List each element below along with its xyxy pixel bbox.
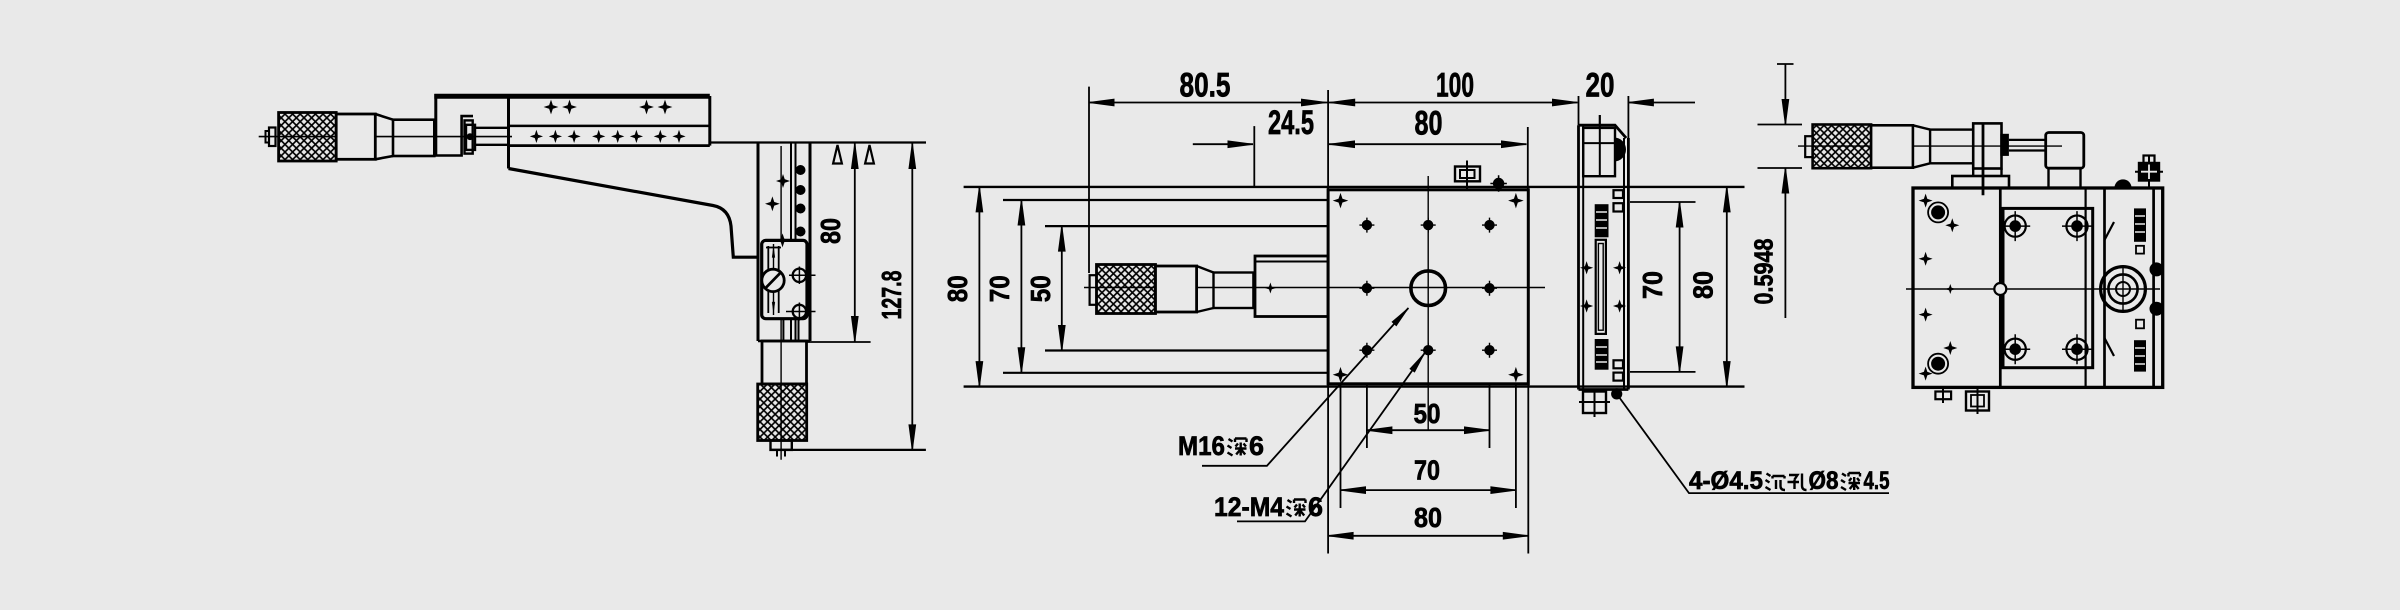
dim 80 line: [854, 144, 856, 342]
micrometer collar: [1871, 125, 1913, 167]
svg-text:70: 70: [1414, 455, 1440, 486]
taper: [1913, 125, 1930, 167]
micrometer Z stem: [762, 341, 807, 384]
big micrometer circle: [2101, 267, 2146, 312]
center axis: [1906, 288, 2160, 290]
M16 center ring: [1411, 271, 1446, 306]
spindle: [2009, 140, 2046, 151]
svg-text:50: 50: [1414, 398, 1441, 429]
svg-text:50: 50: [1025, 275, 1056, 302]
sleeve: [1930, 130, 1973, 164]
micrometer Y knurl: [1097, 265, 1156, 314]
bottom extension lines: [1327, 384, 1329, 554]
right striped screws: [2134, 208, 2146, 371]
vertical rail column: [757, 144, 760, 342]
side plate notch blocks: [1614, 190, 1624, 198]
micrometer Y taper: [1197, 266, 1214, 312]
spindle to plate: [475, 128, 508, 145]
micrometer X collar: [336, 114, 375, 159]
micrometer X taper: [375, 114, 393, 159]
left dim 80: [978, 187, 980, 387]
svg-text:24.5: 24.5: [1268, 104, 1314, 142]
extension line 24.5: [1253, 126, 1255, 188]
boss chamfers: [2105, 222, 2115, 356]
svg-text:4-Ø4.5: 4-Ø4.5: [1689, 467, 1763, 495]
base outer edge lines (80 wide): [964, 186, 1745, 188]
dim row 24.5 / 80: [1193, 143, 1253, 145]
M4 holes grid: [1359, 218, 1374, 233]
leader 12-M4: [1237, 353, 1425, 521]
inner screw plate: [2003, 208, 2093, 367]
mount bracket: [1973, 123, 2001, 168]
plate right edge extension up: [1527, 127, 1529, 190]
vertical micrometer centerline: [780, 146, 782, 460]
bottom screws: [1942, 387, 1944, 403]
svg-text:80: 80: [1414, 502, 1442, 533]
micrometer Z knurl: [758, 384, 807, 441]
top plate (side view): [507, 96, 510, 169]
micrometer X axis line: [259, 136, 512, 138]
below clamp: [782, 319, 784, 341]
bracket left edge: [434, 94, 437, 156]
side plate bottom screw: [1583, 392, 1606, 414]
side plate left edge: [1578, 96, 1580, 125]
reference top surface line: [710, 141, 926, 143]
corner counterbore diamonds: [1334, 194, 1346, 206]
side plate inner verticals: [1582, 125, 1584, 389]
right side black dots: [2150, 262, 2164, 276]
micrometer X end cap: [266, 131, 270, 143]
svg-text:4.5: 4.5: [1864, 467, 1890, 495]
side plate mid rail: [1596, 240, 1606, 334]
axis line: [1798, 145, 2062, 147]
ball row diamonds: [531, 131, 542, 142]
dim 0.5948: [1784, 64, 1786, 125]
right dim 80: [1726, 187, 1728, 387]
clamp block: [762, 240, 807, 318]
micrometer X sleeve: [393, 120, 434, 156]
left dim 50: [1061, 226, 1063, 350]
micrometer Y collar: [1156, 266, 1197, 312]
bracket bottom: [434, 116, 473, 155]
side plate top + chamfer: [1579, 125, 1627, 138]
svg-text:80.5: 80.5: [1180, 67, 1231, 105]
svg-text:0.5948: 0.5948: [1749, 239, 1779, 305]
leader M16: [1202, 308, 1408, 466]
bracket top thick bar: [434, 94, 710, 99]
spindle clamp: [465, 120, 473, 153]
svg-text:6: 6: [1308, 492, 1323, 522]
plate left edge extension up: [1327, 90, 1329, 190]
side plate diamonds: [1581, 263, 1592, 274]
plate vertical centerline: [1427, 176, 1429, 430]
4 screws: [2000, 211, 2092, 364]
svg-text:70: 70: [984, 275, 1015, 302]
inner verticals: [1999, 188, 2002, 387]
right dim 70: [1679, 202, 1681, 372]
svg-text:80: 80: [1688, 271, 1719, 299]
micrometer end cap: [1805, 136, 1812, 157]
svg-text:127.8: 127.8: [876, 271, 907, 320]
leader 4-d4.5: [1617, 394, 1889, 493]
main square plate: [1328, 190, 1528, 384]
top dim row 80.5 / 100 / 20: [1089, 102, 1578, 104]
micrometer Y: end cap: [1090, 275, 1097, 305]
extension line 80.5 left: [1088, 87, 1090, 273]
top edge dot screw: [1490, 175, 1507, 192]
svg-text:80: 80: [1415, 105, 1443, 143]
left area symbols: [1920, 195, 1931, 206]
open triangles: [833, 145, 842, 164]
70-width lines: [1003, 199, 1328, 201]
bottom dim 70: [1341, 489, 1516, 491]
svg-text:M16: M16: [1178, 431, 1225, 461]
anvil block: [2046, 133, 2084, 169]
svg-text:80: 80: [815, 218, 846, 244]
svg-text:100: 100: [1436, 67, 1474, 105]
dim 127.8 line: [911, 144, 913, 450]
svg-text:12-M4: 12-M4: [1214, 492, 1284, 522]
micrometer Y mount block: [1255, 256, 1328, 317]
side plate right edge: [1627, 96, 1629, 138]
top edge clamp screw: [1455, 167, 1480, 182]
top right screw: [2139, 163, 2159, 181]
diagonal support arm: [509, 169, 758, 258]
svg-text:Ø8: Ø8: [1809, 467, 1839, 495]
crossed screws: [789, 274, 816, 276]
top edge semicircle: [2114, 179, 2131, 188]
micrometer Z collar: [771, 441, 792, 450]
svg-text:20: 20: [1586, 67, 1615, 105]
svg-text:70: 70: [1637, 271, 1668, 299]
horizontal centerline: [1084, 287, 1545, 289]
side plate screws: [1595, 204, 1609, 370]
bottom reference line: [771, 449, 926, 451]
micrometer Y shaft: [1214, 273, 1254, 309]
slotted thumbscrew: [762, 269, 784, 291]
bottom dim 50: [1367, 429, 1490, 431]
rail screws (diamonds): [777, 175, 788, 186]
knob extension lines: [1758, 124, 1803, 126]
tip stub: [777, 450, 785, 457]
50-width lines: [1045, 225, 1328, 227]
svg-text:80: 80: [942, 275, 973, 302]
top plate screws (diamonds): [545, 101, 557, 113]
micrometer X knurled knob: [279, 113, 337, 162]
main square: [1913, 188, 2163, 387]
spindle nut: [2000, 134, 2009, 156]
rail dots: [796, 165, 806, 175]
svg-text:6: 6: [1249, 431, 1264, 461]
micrometer knurl: [1813, 125, 1872, 169]
side plate top block: [1599, 115, 1601, 128]
bottom dim 80: [1328, 535, 1528, 537]
left dim 70: [1020, 200, 1022, 373]
